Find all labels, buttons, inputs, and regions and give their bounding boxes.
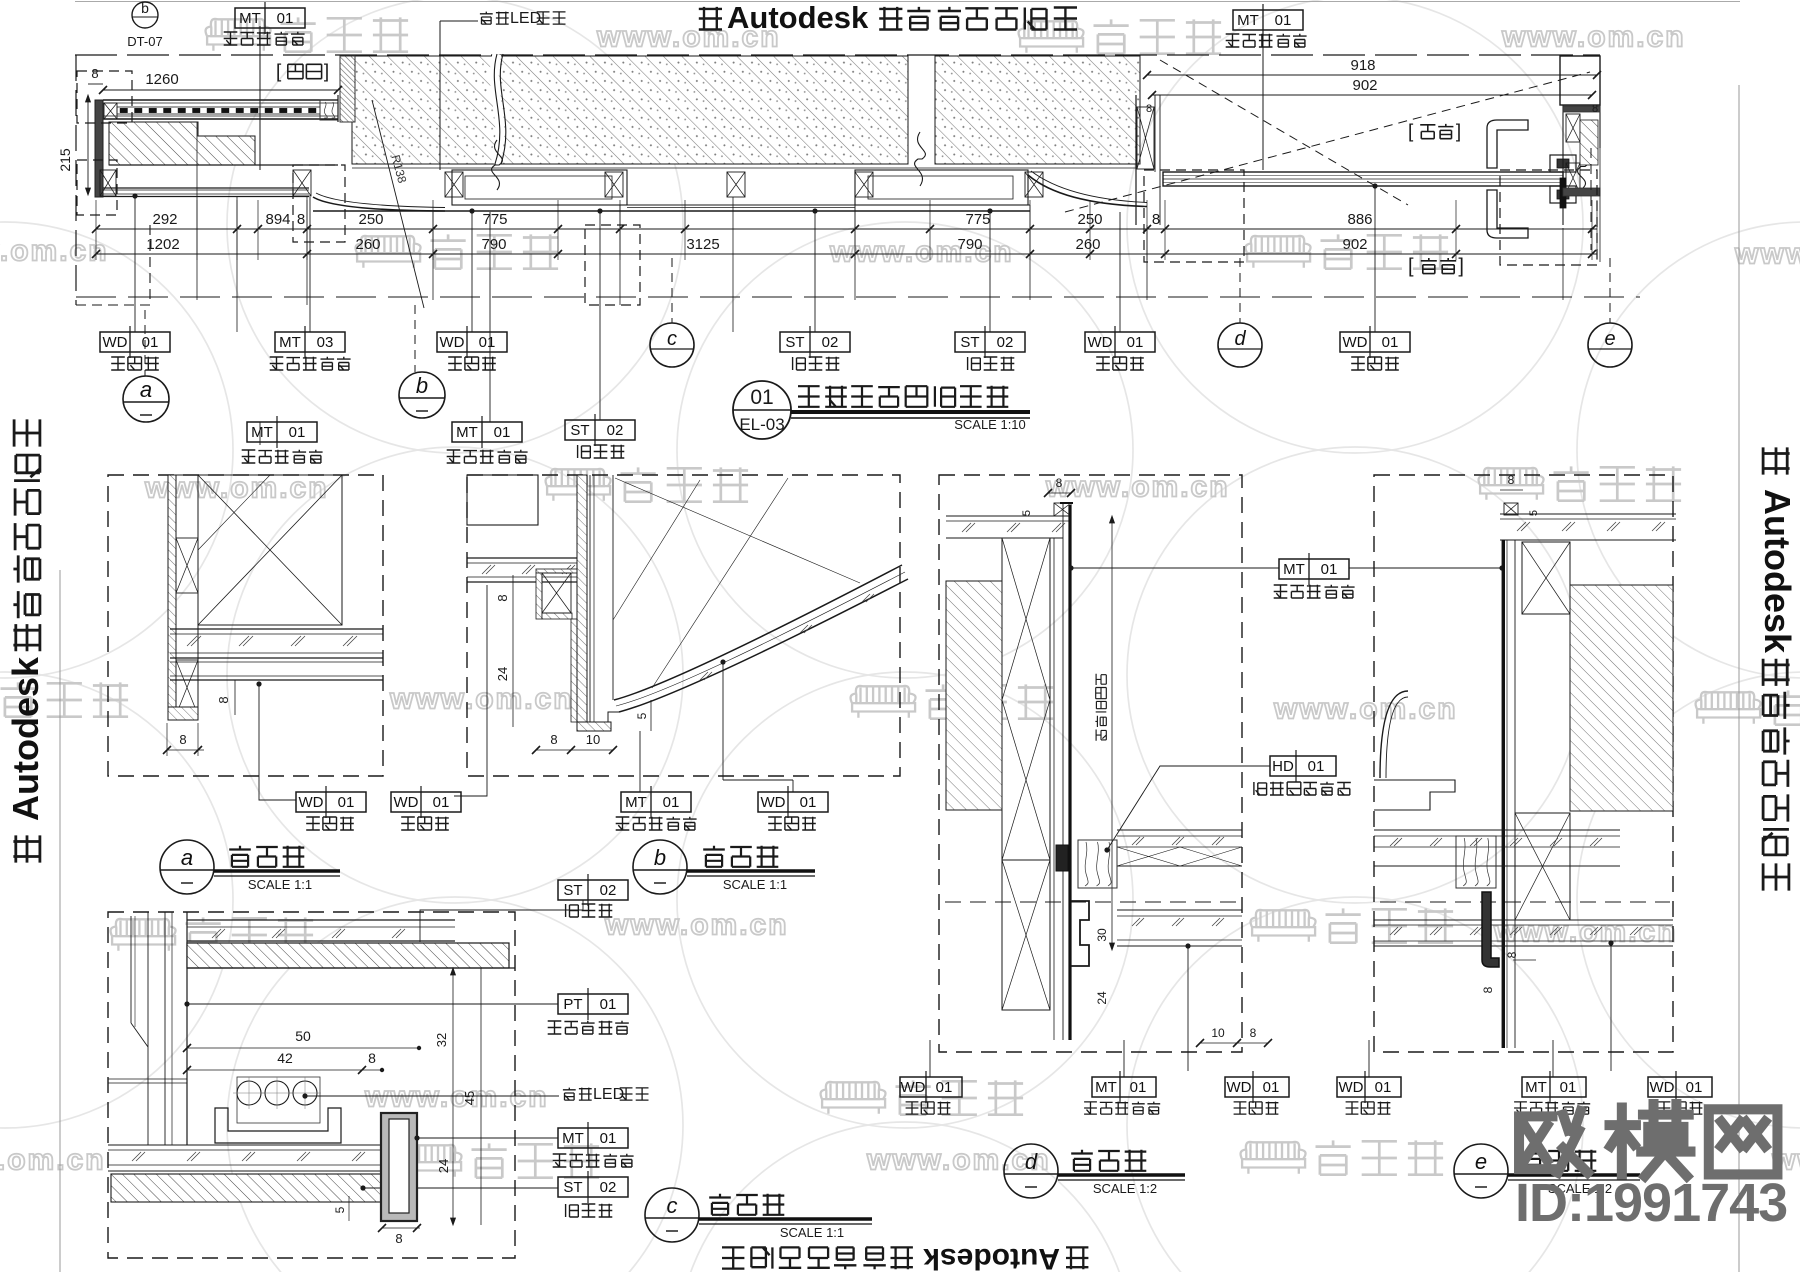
svg-text:www.om.cn: www.om.cn: [1501, 21, 1686, 54]
detail e wall column X: [1522, 542, 1570, 614]
detail c lamp housing: [215, 1108, 341, 1143]
dense wall strip: [340, 56, 355, 122]
svg-text:01: 01: [1130, 1079, 1147, 1096]
circle b marker: [414, 305, 416, 372]
svg-text:902: 902: [1342, 236, 1367, 253]
svg-text:EL-03: EL-03: [739, 415, 784, 434]
detail d dims small: [1095, 928, 1109, 942]
left dashed callout rects: [77, 71, 132, 123]
detail e dark J trim: [1482, 892, 1499, 967]
svg-text:24: 24: [1095, 991, 1109, 1005]
svg-text:c: c: [667, 1193, 678, 1218]
svg-text:01: 01: [600, 996, 617, 1013]
svg-text:d: d: [1234, 328, 1246, 350]
svg-text:b: b: [654, 845, 666, 870]
top MT-01 callout right: [1233, 10, 1303, 30]
svg-text:MT: MT: [456, 424, 478, 441]
x blocks row: [100, 170, 116, 196]
watermark tiles: [206, 19, 271, 51]
detail c dim 42 8: [187, 1069, 382, 1071]
svg-text:Autodesk: Autodesk: [1757, 489, 1798, 654]
svg-text:32: 32: [434, 1033, 449, 1047]
svg-text:02: 02: [997, 334, 1014, 351]
detail c mirror column: [130, 916, 132, 1023]
detail a dims: [234, 680, 236, 715]
svg-text:01: 01: [936, 1079, 953, 1096]
svg-text:www.om.cn: www.om.cn: [364, 1081, 549, 1114]
svg-text:01: 01: [1686, 1079, 1703, 1096]
detail e leader down: [1608, 940, 1613, 945]
svg-text:775: 775: [482, 211, 507, 228]
svg-text:5: 5: [635, 712, 649, 719]
detail d site dim: [1111, 516, 1113, 950]
svg-text:01: 01: [494, 424, 511, 441]
node title b: [633, 840, 687, 894]
extension lines: [95, 200, 97, 260]
ceiling line middle: [313, 210, 1030, 212]
detail b shelf band: [467, 557, 577, 559]
svg-text:01: 01: [1375, 1079, 1392, 1096]
detail c MT-01 leader: [414, 1135, 419, 1140]
left wood block: [104, 103, 117, 119]
svg-text:e: e: [1604, 328, 1615, 350]
left end cap dark bar: [95, 100, 103, 197]
row2 ST-02: [599, 211, 601, 420]
detail e handle arc: [1380, 691, 1408, 778]
svg-text:02: 02: [607, 422, 624, 439]
svg-text:8: 8: [216, 696, 231, 703]
svg-text:8: 8: [395, 1231, 402, 1246]
svg-text:SCALE 1:10: SCALE 1:10: [954, 417, 1026, 432]
top MT-01 callout left: [235, 8, 305, 28]
door handle bottom: [1487, 190, 1528, 238]
svg-text:[: [: [1408, 255, 1414, 277]
svg-text:www.om.cn: www.om.cn: [389, 683, 574, 716]
svg-text:215: 215: [57, 148, 73, 172]
node title e: [1454, 1144, 1508, 1198]
svg-text:30: 30: [1095, 928, 1109, 942]
svg-text:LED: LED: [510, 10, 541, 27]
big om.cn logo: [1519, 1104, 1777, 1176]
svg-text:45: 45: [462, 1091, 477, 1105]
svg-text:8: 8: [550, 732, 557, 747]
detail d door band2: [1117, 909, 1242, 911]
detail e ceiling band: [1500, 513, 1676, 515]
svg-text:Autodesk: Autodesk: [727, 0, 869, 35]
svg-text:902: 902: [1352, 77, 1377, 94]
detail a leader to WD-01: [256, 681, 261, 686]
svg-text:42: 42: [277, 1050, 293, 1066]
svg-text:b: b: [141, 0, 149, 16]
svg-text:01: 01: [800, 794, 817, 811]
detail c top marble band: [187, 943, 509, 968]
dimension row 1: [96, 228, 1597, 230]
top Autodesk education banner: [699, 7, 722, 30]
left vertical Autodesk text: [5, 419, 46, 862]
svg-text:24: 24: [495, 667, 510, 681]
svg-text:[: [: [276, 62, 282, 83]
svg-text:01: 01: [289, 424, 306, 441]
door left jamb: [1135, 95, 1137, 225]
svg-text:5: 5: [333, 1206, 347, 1213]
ST-02 under detail b: [558, 880, 628, 900]
right niche: [855, 170, 1028, 205]
svg-text:www.om.cn: www.om.cn: [1273, 693, 1458, 726]
drawing title 01 EL-03: [733, 381, 791, 439]
dimension row 2: [96, 253, 1597, 255]
svg-text:WD: WD: [299, 794, 324, 811]
svg-text:HD: HD: [1272, 758, 1294, 775]
svg-text:www.om.cn: www.om.cn: [0, 1144, 106, 1177]
svg-text:]: ]: [324, 62, 329, 83]
svg-text:790: 790: [957, 236, 982, 253]
detail d wood grain block: [1078, 840, 1117, 888]
bottom dashed boundary of section: [76, 296, 1640, 298]
detail e concrete hatch: [1570, 585, 1673, 811]
svg-text:01: 01: [1263, 1079, 1280, 1096]
detail b curved panel rising right: [614, 565, 902, 700]
svg-text:WD: WD: [103, 334, 128, 351]
svg-text:]: ]: [1456, 122, 1461, 143]
svg-text:8: 8: [1146, 103, 1152, 115]
right vertical Autodesk text: [1757, 447, 1798, 890]
svg-text:01: 01: [338, 794, 355, 811]
svg-text:WD: WD: [1343, 334, 1368, 351]
detail d door edge profile: [1071, 901, 1089, 966]
svg-text:ST: ST: [563, 1179, 582, 1196]
svg-text:8: 8: [1056, 476, 1063, 490]
detail e steps: [1374, 780, 1455, 810]
detail c ST-02 leader: [360, 1185, 365, 1190]
svg-text:01: 01: [600, 1130, 617, 1147]
detail e glass strip: [1502, 540, 1505, 1048]
detail e inner dashed line: [1380, 901, 1670, 903]
detail b glass panel vertical: [577, 475, 587, 727]
svg-text:01: 01: [750, 386, 773, 409]
detail c right dims: [452, 968, 454, 1225]
circle b top left: [132, 2, 158, 28]
detail b MT-01 callout: [639, 731, 641, 792]
svg-text:8: 8: [297, 211, 305, 228]
svg-text:260: 260: [355, 236, 380, 253]
slab concrete hatch band right: [935, 56, 1140, 164]
detail b ceiling stub: [467, 475, 538, 525]
detail e door bands: [1374, 829, 1620, 831]
svg-text:www.om.cn: www.om.cn: [866, 1144, 1051, 1177]
svg-text:8: 8: [495, 594, 510, 601]
long projection verticals: [196, 122, 198, 300]
detail d leader down: [1185, 943, 1190, 948]
svg-text:WD: WD: [440, 334, 465, 351]
svg-text:WD: WD: [1088, 334, 1113, 351]
svg-text:www.om.cn: www.om.cn: [604, 909, 789, 942]
svg-text:Autodesk: Autodesk: [5, 656, 46, 821]
svg-text:d: d: [1025, 1149, 1038, 1174]
svg-text:02: 02: [600, 882, 617, 899]
detail c steel channel: [381, 1113, 417, 1221]
svg-text:8: 8: [1481, 986, 1495, 993]
LED strip leader: [440, 20, 478, 22]
left slab hatch step: [109, 122, 255, 165]
slab concrete hatch band left: [352, 56, 908, 164]
svg-text:PT: PT: [563, 996, 582, 1013]
svg-text:918: 918: [1350, 57, 1375, 74]
svg-text:03: 03: [317, 334, 334, 351]
svg-text:01: 01: [277, 10, 294, 27]
svg-text:3125: 3125: [686, 236, 719, 253]
svg-text:WD: WD: [1339, 1079, 1364, 1096]
detail a glass shelf band: [170, 628, 383, 630]
left cove curve: [313, 197, 445, 211]
door lock body: [1550, 155, 1576, 172]
detail a wall finish bar: [168, 475, 176, 720]
svg-text:MT: MT: [251, 424, 273, 441]
row2 MT-01 under b: [489, 212, 491, 422]
svg-text:www.om.cn: www.om.cn: [1734, 238, 1800, 271]
svg-text:8: 8: [1250, 1026, 1257, 1040]
svg-text:SCALE 1:1: SCALE 1:1: [248, 877, 312, 892]
svg-text:260: 260: [1075, 236, 1100, 253]
break symbols: [494, 54, 500, 164]
dim 8 and 1260 top left: [88, 83, 103, 85]
R angled leader line: [372, 100, 424, 308]
svg-text:02: 02: [822, 334, 839, 351]
svg-text:MT: MT: [1237, 12, 1259, 29]
svg-text:WD: WD: [901, 1079, 926, 1096]
svg-text:01: 01: [1127, 334, 1144, 351]
detail c floor marble: [111, 1174, 385, 1202]
detail b dashed box: [467, 475, 900, 776]
detail b WD-01 left box: [454, 585, 487, 796]
svg-text:5: 5: [1021, 510, 1033, 516]
svg-text:01: 01: [433, 794, 450, 811]
svg-text:MT: MT: [1095, 1079, 1117, 1096]
detail c top shelf: [187, 919, 455, 921]
svg-text:[: [: [1408, 122, 1414, 143]
detail a dashed box: [108, 475, 383, 776]
svg-text:DT-07: DT-07: [127, 34, 162, 49]
svg-text:e: e: [1475, 1149, 1487, 1174]
detail e dashed box: [1374, 475, 1673, 1052]
svg-text:]: ]: [1458, 255, 1464, 277]
svg-text:10: 10: [586, 732, 600, 747]
svg-text:01: 01: [479, 334, 496, 351]
svg-text:886: 886: [1347, 211, 1372, 228]
bottom inverted Autodesk banner: [722, 1242, 1088, 1272]
svg-text:10: 10: [1211, 1026, 1225, 1040]
detail d door top band1: [1117, 829, 1242, 831]
svg-text:MT: MT: [239, 10, 261, 27]
detail c dim 50: [187, 1047, 419, 1049]
detail b bottom cap: [577, 722, 611, 731]
top left panel assembly: [103, 99, 338, 101]
svg-text:ID:1991743: ID:1991743: [1515, 1173, 1787, 1233]
detail e dims: [1513, 959, 1536, 961]
svg-text:SCALE 1:2: SCALE 1:2: [1093, 1181, 1157, 1196]
door right jamb: [1560, 56, 1600, 105]
lower ceiling panel left: [103, 187, 309, 189]
svg-text:790: 790: [481, 236, 506, 253]
details d e callout row: [929, 1040, 931, 1077]
svg-text:Autodesk: Autodesk: [923, 1242, 1060, 1272]
detail d wall column X: [1002, 538, 1050, 860]
svg-text:50: 50: [295, 1028, 311, 1044]
svg-text:WD: WD: [761, 794, 786, 811]
svg-text:www.om.cn: www.om.cn: [0, 235, 109, 268]
detail d top dims: [1048, 492, 1071, 494]
svg-text:01: 01: [1321, 561, 1338, 578]
door leaf section: [1163, 172, 1563, 186]
detail d glass strip: [1053, 538, 1055, 1040]
svg-text:SCALE 1:1: SCALE 1:1: [723, 877, 787, 892]
detail c LED label: [305, 1095, 559, 1097]
detail d hinge block: [1056, 845, 1068, 871]
left niche: [452, 170, 627, 205]
detail c dashed box: [108, 912, 515, 1258]
door swing dashed diagonals: [1065, 72, 1590, 212]
slab soffit line: [352, 167, 1136, 169]
svg-text:ST: ST: [563, 882, 582, 899]
svg-text:MT: MT: [1525, 1079, 1547, 1096]
svg-text:ST: ST: [960, 334, 979, 351]
detail d dashed box: [939, 475, 1242, 1052]
svg-text:894: 894: [265, 211, 290, 228]
svg-text:8: 8: [1508, 473, 1515, 487]
svg-text:WD: WD: [394, 794, 419, 811]
callout row 1: [134, 196, 136, 332]
detail c base band: [108, 1144, 385, 1146]
svg-text:01: 01: [1560, 1079, 1577, 1096]
detail d concrete hatch: [946, 581, 1002, 810]
svg-text:c: c: [667, 328, 677, 350]
svg-text:01: 01: [1308, 758, 1325, 775]
svg-text:MT: MT: [279, 334, 301, 351]
svg-text:02: 02: [600, 1179, 617, 1196]
detail e wood grain: [1456, 836, 1496, 888]
svg-text:01: 01: [142, 334, 159, 351]
detail a blocking X: [198, 475, 342, 625]
svg-text:8: 8: [179, 732, 186, 747]
detail c spotlights: [237, 1077, 320, 1123]
svg-text:8: 8: [91, 66, 98, 81]
svg-text:250: 250: [358, 211, 383, 228]
detail b WD-01 right: [720, 659, 725, 664]
svg-text:292: 292: [152, 211, 177, 228]
dim 215 vertical: [87, 95, 89, 195]
LED channel strip with blocking: [117, 107, 320, 114]
svg-text:01: 01: [663, 794, 680, 811]
svg-text:8: 8: [1592, 103, 1598, 115]
detail c small dims bottom: [348, 1196, 350, 1221]
svg-text:WD: WD: [1227, 1079, 1252, 1096]
detail a bottom cap: [168, 707, 198, 720]
node title d: [1004, 1144, 1058, 1198]
detail d ceiling band: [946, 515, 1071, 517]
svg-text:MT: MT: [625, 794, 647, 811]
svg-text:24: 24: [436, 1159, 451, 1173]
right cove curve: [1028, 175, 1147, 207]
svg-text:775: 775: [965, 211, 990, 228]
right end wood block: [320, 100, 338, 120]
svg-text:a: a: [140, 377, 152, 402]
svg-text:LED: LED: [593, 1086, 624, 1103]
node title c: [645, 1188, 699, 1242]
row2 MT-01 under a: [259, 422, 261, 445]
svg-text:a: a: [181, 845, 193, 870]
circle a marker: [144, 310, 146, 376]
svg-text:8: 8: [1152, 211, 1160, 228]
svg-text:MT: MT: [1283, 561, 1305, 578]
page border lines: [75, 1, 1740, 3]
detail b dims: [512, 575, 514, 617]
detail d inner dashed line: [945, 901, 1240, 903]
svg-text:MT: MT: [562, 1130, 584, 1147]
svg-text:1260: 1260: [145, 71, 178, 88]
detail c PT-01 leader: [184, 1001, 189, 1006]
svg-text:WD: WD: [1650, 1079, 1675, 1096]
svg-text:ST: ST: [570, 422, 589, 439]
detail d MT-01 callout: [1068, 565, 1073, 570]
node title a: [160, 840, 214, 894]
detail e top dims: [1500, 489, 1523, 491]
door handle top: [1487, 120, 1528, 168]
svg-text:01: 01: [1275, 12, 1292, 29]
svg-text:5: 5: [1528, 510, 1540, 516]
detail d HD-01 hinge callout: [1270, 756, 1336, 776]
detail d stainless trim: [1068, 505, 1071, 1040]
svg-text:ST: ST: [785, 334, 804, 351]
svg-text:01: 01: [1382, 334, 1399, 351]
svg-text:SCALE 1:1: SCALE 1:1: [780, 1225, 844, 1240]
mid dashed callout rects: [293, 165, 345, 242]
top boundary dashed line: [75, 54, 1600, 56]
svg-text:1202: 1202: [146, 236, 179, 253]
svg-text:8: 8: [368, 1050, 376, 1066]
detail b brace triangles: [615, 478, 860, 583]
svg-text:b: b: [416, 373, 428, 398]
svg-text:8: 8: [1505, 951, 1519, 958]
dim 902 right top: [1152, 94, 1592, 96]
dim 918: [1147, 74, 1597, 76]
